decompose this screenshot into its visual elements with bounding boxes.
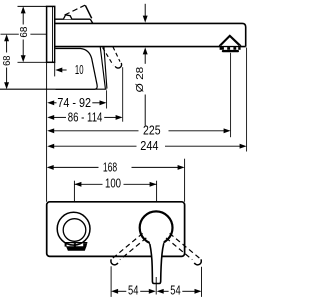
- svg-text:74 - 92: 74 - 92: [57, 96, 91, 110]
- dimension 68 outer up arrow: [4, 34, 9, 41]
- aerator lower ring: [222, 50, 239, 52]
- left swing lever tip cap: [111, 259, 118, 265]
- svg-text:168: 168: [103, 160, 117, 174]
- open lever end edge: [85, 5, 91, 18]
- svg-text:68: 68: [2, 55, 13, 66]
- dimension Ø28 upper arrow line: [144, 4, 146, 16]
- closed lever end slant: [90, 19, 93, 23]
- swung lever tip cap: [115, 63, 121, 68]
- svg-text:68: 68: [19, 26, 30, 37]
- dimension 74-92 line: [53, 102, 56, 104]
- svg-text:100: 100: [105, 177, 121, 191]
- escutcheon inner circle: [63, 219, 86, 242]
- dimension 225 line: [53, 130, 138, 132]
- swung lever dashed edge right: [113, 47, 120, 62]
- left swing dashed lever lower edge: [120, 238, 146, 260]
- dimension 100 line: [74, 183, 156, 185]
- front aerator chord line: [65, 242, 88, 244]
- swung lever dashed edge left: [103, 48, 114, 66]
- dimension 74-92 right extension: [106, 90, 108, 108]
- dimension 86-114 right extension: [122, 67, 124, 122]
- handle stem front view: [149, 239, 164, 284]
- svg-text:54: 54: [170, 283, 180, 297]
- svg-text:86 - 114: 86 - 114: [68, 110, 103, 124]
- dimension 68 inner line: [22, 13, 24, 25]
- handle neck strip right edge: [104, 47, 107, 89]
- svg-text:Ø 28: Ø 28: [134, 67, 146, 93]
- dimension 68 inner down arrow: [21, 55, 26, 62]
- 54 extension lines: [110, 266, 112, 297]
- dimension 68 inner up arrow: [21, 6, 26, 13]
- dimension 100 extensions: [73, 181, 75, 202]
- dimension 244 line: [53, 145, 136, 147]
- svg-text:54: 54: [128, 283, 138, 297]
- dimension 10 extension line: [54, 62, 56, 76]
- dimension 168 line: [53, 166, 98, 168]
- right swing dashed lever lower edge: [166, 238, 192, 260]
- inner 68 bottom tick: [18, 61, 47, 63]
- dimension 54 right line: [163, 290, 168, 292]
- dimension 225 extension (aerator center): [230, 53, 232, 137]
- svg-text:244: 244: [140, 139, 158, 153]
- right swing dashed lever upper edge: [170, 233, 202, 260]
- right swing lever tip cap: [194, 259, 201, 265]
- aerator band: [220, 47, 241, 50]
- dimension 244 extension (spout tip): [246, 48, 248, 152]
- inner 68 top tick: [18, 5, 47, 7]
- wall extension line down to front view: [46, 62, 48, 202]
- front wall plate: [47, 202, 185, 257]
- dimension 54 left line: [118, 290, 127, 292]
- svg-text:10: 10: [75, 63, 84, 77]
- dimension 168 right extension: [184, 159, 186, 202]
- escutcheon outer circle: [57, 212, 90, 245]
- handle neck strip left edge: [100, 47, 105, 89]
- svg-text:225: 225: [143, 124, 161, 138]
- handle side view (big lever below spout): [55, 49, 97, 90]
- lever pivot wedge: [63, 15, 72, 19]
- dimension 100 label: [103, 178, 124, 190]
- dimension 10 arrow: [55, 68, 62, 73]
- dimension Ø28 lower arrow and line: [143, 47, 148, 54]
- wall plate side view: [47, 6, 55, 62]
- dimension 68 outer down arrow: [4, 82, 9, 89]
- outer 68 bottom tick / handle bottom line: [0, 88, 107, 90]
- outer 68 top tick (spout axis extension line): [1, 33, 47, 35]
- dimension 86-114 line: [53, 116, 66, 118]
- closed lever bar on spout top: [55, 18, 91, 20]
- open lever dashed line: [65, 5, 85, 15]
- spout body top and end: [55, 23, 246, 46]
- aerator tent outer: [219, 35, 241, 46]
- aerator tent inner: [221, 37, 240, 46]
- wall plate inner edge line: [52, 6, 54, 62]
- dimension 68 inner label: [19, 26, 31, 39]
- left swing dashed lever upper edge: [111, 233, 143, 260]
- spout bottom line: [55, 46, 246, 48]
- dimension 68 outer line: [6, 41, 8, 53]
- front aerator dark band: [65, 243, 67, 246]
- handle head front view: [140, 211, 173, 244]
